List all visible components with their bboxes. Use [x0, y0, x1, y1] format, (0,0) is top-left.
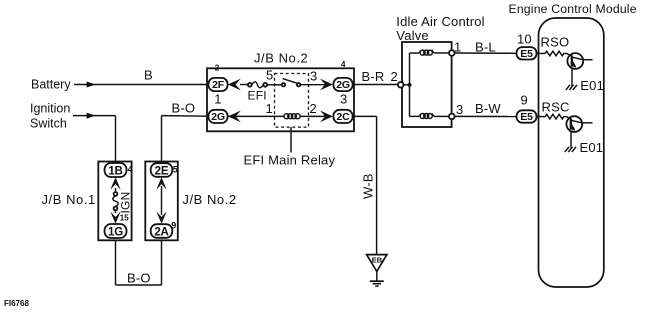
svg-text:EFI: EFI — [248, 88, 267, 102]
svg-text:2A: 2A — [154, 226, 168, 238]
svg-text:B-W: B-W — [475, 101, 501, 116]
svg-text:2: 2 — [391, 69, 398, 84]
svg-text:B: B — [144, 68, 153, 83]
svg-text:4: 4 — [341, 60, 346, 69]
wire 2C to ground, W-B — [353, 116, 377, 254]
svg-text:1: 1 — [214, 92, 221, 107]
svg-text:Idle Air Control: Idle Air Control — [396, 14, 484, 29]
svg-text:2: 2 — [310, 101, 317, 116]
connector E5 pin 9 — [517, 110, 537, 123]
transistor RSO — [567, 53, 593, 86]
fuse EFI — [248, 82, 267, 88]
relay coil — [228, 114, 325, 119]
connector arrow down to 1G — [110, 211, 120, 223]
wire IACV pin1 to E5, B-L — [455, 52, 517, 54]
connector arrow up to 1B — [110, 177, 120, 189]
svg-text:5: 5 — [266, 67, 273, 82]
connector arrow at 2G right — [320, 79, 333, 91]
connector 1B — [105, 163, 127, 177]
svg-text:Ignition: Ignition — [30, 102, 70, 116]
svg-text:RSC: RSC — [542, 100, 570, 115]
svg-text:FI6768: FI6768 — [4, 299, 29, 308]
svg-text:5: 5 — [173, 165, 178, 175]
svg-text:Engine Control Module: Engine Control Module — [509, 2, 637, 16]
connector arrow down to 2A — [156, 211, 166, 223]
wire switch to 2G right — [300, 84, 325, 86]
svg-text:J/B No.2: J/B No.2 — [254, 51, 308, 66]
wire 2G right to IACV pin 2, B-R — [353, 84, 398, 86]
connector 2A — [151, 224, 173, 238]
wire fuse to relay switch — [267, 84, 282, 86]
Idle Air Control Valve box — [402, 42, 452, 127]
connector 2G left — [208, 110, 227, 123]
svg-text:E01: E01 — [580, 140, 604, 155]
node pin 1 of IACV — [449, 50, 455, 56]
connector 2F — [208, 78, 227, 91]
wire 1G down, B-O bottom link — [116, 240, 162, 285]
svg-text:3: 3 — [456, 102, 463, 117]
junction dot inside IACV — [407, 83, 411, 87]
junction box J/B No.1 (lower left) — [98, 162, 131, 241]
svg-text:EFI Main Relay: EFI Main Relay — [244, 152, 336, 167]
svg-text:EB: EB — [372, 255, 383, 264]
wire ignition switch lead with arrow — [73, 113, 116, 164]
svg-text:B-R: B-R — [362, 69, 385, 84]
wire relay to EFI Main Relay label — [290, 127, 292, 152]
coil IACV lower — [419, 113, 434, 118]
svg-text:E5: E5 — [520, 111, 533, 123]
connector arrow at 2F — [228, 79, 241, 91]
IACV internal wiring — [404, 53, 450, 116]
junction box J/B No.2 (main) — [207, 68, 354, 131]
transistor RSC — [566, 116, 592, 148]
ground E01 lower — [565, 140, 603, 155]
svg-text:B-O: B-O — [127, 270, 151, 285]
ground symbol — [370, 281, 384, 286]
svg-text:J/B No.1: J/B No.1 — [42, 192, 96, 207]
label Idle Air Control Valve — [396, 14, 484, 43]
svg-text:1G: 1G — [108, 226, 123, 238]
Engine Control Module box — [539, 18, 604, 287]
svg-text:9: 9 — [171, 220, 176, 230]
svg-text:2: 2 — [215, 63, 220, 72]
svg-text:Valve: Valve — [396, 28, 429, 43]
wire between 2E and 2A — [161, 186, 163, 215]
connector 2G right — [333, 78, 352, 91]
svg-text:Battery: Battery — [31, 78, 71, 92]
svg-text:2E: 2E — [155, 165, 169, 177]
svg-text:3: 3 — [310, 69, 317, 84]
connector 2E — [151, 163, 173, 177]
wire IACV pin3 to E5, B-W — [455, 115, 517, 117]
svg-text:1B: 1B — [108, 165, 122, 177]
ground triangle EB — [367, 255, 387, 281]
svg-text:2F: 2F — [212, 79, 225, 91]
svg-text:W-B: W-B — [361, 173, 376, 199]
svg-text:15: 15 — [120, 213, 129, 222]
svg-text:10: 10 — [517, 31, 532, 46]
relay switch contacts — [282, 79, 301, 87]
connector arrow up to 2E — [156, 177, 166, 189]
connector 1G — [105, 224, 127, 238]
svg-text:B-L: B-L — [475, 40, 496, 55]
wire battery lead with arrow — [74, 82, 209, 88]
connector 2C — [333, 110, 352, 123]
resistor RSO — [537, 51, 567, 56]
svg-text:2G: 2G — [336, 79, 350, 91]
ground E01 upper — [566, 78, 604, 93]
svg-text:RSO: RSO — [541, 35, 570, 50]
svg-text:E01: E01 — [580, 78, 604, 93]
junction box J/B No.2 (lower right) — [145, 162, 178, 241]
node pin 2 of IACV — [398, 82, 404, 88]
connector E5 pin 10 — [517, 47, 537, 60]
fuse IGN — [113, 188, 118, 213]
resistor RSC — [537, 114, 567, 119]
connector arrow at 2C — [320, 111, 333, 123]
svg-text:4: 4 — [128, 165, 133, 175]
svg-text:1: 1 — [266, 101, 273, 116]
relay dashed box EFI Main Relay — [275, 74, 309, 128]
svg-text:2C: 2C — [336, 111, 350, 123]
svg-text:9: 9 — [521, 93, 528, 108]
svg-text:Switch: Switch — [30, 116, 67, 130]
label Ignition Switch — [30, 102, 70, 131]
wire 2F to fuse — [240, 84, 248, 86]
svg-text:1: 1 — [454, 39, 461, 54]
coil IACV upper — [419, 50, 434, 55]
wire 2E up to B-O row — [162, 116, 209, 164]
connector arrow at 2G left — [228, 111, 241, 123]
node pin 3 of IACV — [449, 114, 455, 120]
svg-text:J/B No.2: J/B No.2 — [182, 192, 236, 207]
svg-text:IGN: IGN — [119, 192, 133, 214]
svg-text:B-O: B-O — [172, 100, 196, 115]
svg-text:2G: 2G — [211, 111, 225, 123]
svg-text:3: 3 — [340, 92, 347, 107]
svg-text:E5: E5 — [520, 48, 533, 60]
